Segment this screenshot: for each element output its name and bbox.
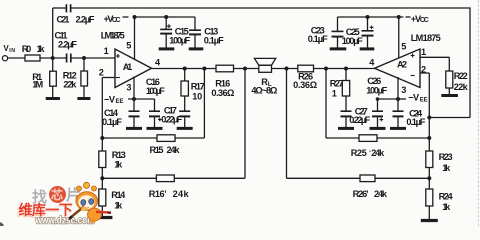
ground R14 [95, 216, 113, 219]
resistor R26' [360, 175, 375, 182]
node A2 -Vee [396, 97, 400, 101]
svg-text:24k: 24k [173, 189, 190, 199]
svg-text:5: 5 [126, 40, 131, 50]
ground C14 [126, 127, 142, 130]
wire A2 pin3 [397, 77, 399, 111]
wire right edge to A2 inverting node [429, 117, 470, 119]
ground C17 [177, 127, 193, 130]
svg-text:R17: R17 [191, 81, 205, 91]
svg-text:1: 1 [332, 88, 337, 98]
svg-text:R24: R24 [439, 192, 454, 202]
corner mark bottom-left [0, 223, 4, 227]
node R23/R24/R26' junction [427, 176, 431, 180]
resistor R16 [216, 65, 234, 72]
wire R0 to C11 [40, 57, 66, 59]
mascot eye left [81, 200, 86, 206]
svg-text:−V: −V [104, 94, 116, 104]
svg-text:R26’: R26’ [353, 189, 369, 199]
wire speaker right down [286, 69, 288, 179]
wire speaker to R26 [272, 68, 298, 70]
resistor R1 [50, 58, 57, 97]
svg-text:R27: R27 [330, 79, 344, 89]
node A2 pin5 rail [397, 15, 401, 19]
capacitor C14 [129, 111, 140, 127]
ground C25 [360, 47, 375, 50]
resistor R14 [99, 189, 106, 216]
ground C26 [370, 127, 386, 130]
node R15 feedback tap [202, 67, 206, 71]
svg-text:100µF: 100µF [366, 86, 387, 96]
wire R25 vertical [325, 69, 327, 139]
mascot crown balls [77, 186, 82, 191]
power +Vcc left rail [133, 16, 195, 18]
power +Vcc left dash [123, 16, 129, 18]
svg-text:−V: −V [408, 93, 420, 103]
node R17 tap [183, 67, 187, 71]
capacitor C15 [160, 17, 172, 48]
svg-text:1k: 1k [114, 201, 123, 211]
resistor R24 [426, 189, 433, 219]
svg-text:R0: R0 [22, 44, 32, 54]
op-amp A2 LM1875 [375, 49, 421, 88]
svg-text:0.1µF: 0.1µF [204, 35, 224, 45]
svg-text:R16’: R16’ [149, 189, 167, 199]
svg-text:www.dzsc.com: www.dzsc.com [35, 215, 95, 227]
node pin2/R15 junction [100, 136, 104, 140]
resistor R27 [342, 69, 349, 112]
wire R26' rail [287, 177, 430, 179]
svg-text:R23: R23 [439, 152, 453, 162]
capacitor C27 [341, 111, 352, 127]
svg-text:100µF: 100µF [342, 36, 363, 46]
power +Vcc right dash [406, 16, 411, 18]
resistor R22 [446, 71, 453, 94]
svg-text:R13: R13 [112, 150, 126, 160]
resistor R12 [81, 58, 88, 97]
mascot cartoon [69, 182, 111, 223]
op-amp A1 LM1875 [115, 49, 152, 88]
A1 minus mark [116, 77, 120, 79]
svg-text:4: 4 [369, 58, 375, 68]
node C25 rail [366, 15, 370, 19]
wire R15 rail [102, 137, 204, 139]
node speaker right [285, 67, 289, 71]
svg-text:+VCC: +VCC [411, 14, 429, 24]
mascot face [79, 195, 95, 209]
svg-text:10: 10 [192, 91, 202, 101]
wire A1 pin2 stub [102, 77, 115, 79]
mascot brown pen [71, 207, 85, 218]
ground R1 [46, 97, 60, 100]
svg-text:3: 3 [126, 82, 131, 92]
svg-text:R15: R15 [150, 145, 164, 155]
node C26 tap [376, 97, 380, 101]
resistor R25 [359, 135, 377, 142]
ground C27 [338, 127, 354, 130]
ground C13 [189, 47, 204, 50]
mascot foot [90, 219, 96, 223]
svg-text:IN: IN [9, 48, 15, 54]
svg-text:R14: R14 [111, 190, 126, 200]
svg-text:2: 2 [99, 67, 104, 77]
wire R25 rail [326, 137, 429, 139]
wire R15 vertical [203, 69, 205, 139]
capacitor C23 [332, 17, 344, 48]
capacitor C13 [189, 17, 201, 48]
ground R22 [441, 94, 458, 97]
capacitor C11 [67, 54, 71, 63]
capacitor C16 [149, 111, 162, 127]
A1 plus mark [116, 54, 120, 58]
svg-text:LM1875: LM1875 [101, 30, 125, 40]
svg-text:22k: 22k [454, 82, 469, 92]
wire A1 pin5 [134, 17, 136, 60]
svg-text:0.22µF: 0.22µF [161, 115, 182, 125]
svg-text:2: 2 [421, 64, 426, 74]
svg-text:R25: R25 [351, 148, 367, 158]
svg-text:100µF: 100µF [146, 86, 165, 96]
resistor R15 [157, 135, 175, 142]
svg-text:0.36Ω: 0.36Ω [293, 80, 317, 90]
svg-text:1k: 1k [442, 163, 451, 173]
wire A2 pin1 to R22 [420, 57, 449, 71]
mascot head [76, 192, 98, 210]
svg-text:1M: 1M [32, 79, 43, 89]
svg-text:C21: C21 [57, 14, 70, 24]
node R13/R14/R16' junction [100, 176, 104, 180]
node A1 -Vee [132, 97, 136, 101]
resistor R17 [181, 69, 188, 112]
wire A2 pin5 [398, 17, 400, 60]
capacitor C26 [372, 111, 383, 127]
node input (junction R0/C11/R1/C21) [51, 56, 55, 60]
mascot hand [81, 207, 86, 212]
wire -Vee A1 to C16 [128, 99, 155, 111]
resistor R13 [99, 138, 106, 189]
wire R16' rail [102, 177, 245, 179]
svg-text:LM1875: LM1875 [411, 33, 441, 43]
resistor R0 [25, 55, 40, 61]
watermark seal circle [49, 186, 66, 203]
svg-text:100µF: 100µF [169, 36, 190, 46]
mascot mouth [85, 206, 89, 209]
wire A2 pin2 stub [420, 73, 429, 138]
node R25/pin2 junction [427, 136, 431, 140]
ground C16 [147, 127, 163, 130]
node R25 feedback tap [324, 67, 328, 71]
svg-text:A2: A2 [397, 59, 407, 69]
svg-text:24k: 24k [371, 148, 385, 158]
node R27 tap [344, 67, 348, 71]
capacitor C25 [362, 17, 374, 48]
input terminal Vin [2, 56, 7, 61]
svg-text:3: 3 [401, 85, 406, 95]
capacitor C24 [393, 111, 404, 127]
svg-text:2.2µF: 2.2µF [76, 14, 95, 24]
svg-text:1k: 1k [114, 160, 123, 170]
mascot body [88, 208, 102, 221]
node C11 right (junction C11/R12/pin1) [82, 56, 86, 60]
svg-text:1: 1 [104, 46, 109, 56]
svg-text:0.1µF: 0.1µF [406, 117, 425, 127]
node pin5 rail [133, 15, 137, 19]
svg-text:4: 4 [155, 58, 161, 68]
capacitor C21 [66, 4, 70, 12]
wire C21 top run [53, 7, 66, 9]
wire A1 output [152, 68, 217, 70]
wire A1 pin2 down [101, 78, 103, 139]
svg-text:1k: 1k [442, 202, 451, 212]
svg-text:+VCC: +VCC [104, 14, 121, 24]
wire -Vee A2 to C26 [378, 99, 399, 111]
wire R16 to speaker [234, 68, 259, 70]
svg-text:24k: 24k [374, 189, 388, 199]
svg-text:5: 5 [401, 41, 406, 51]
wire C21 to right edge [71, 8, 470, 118]
ground R12 [77, 97, 90, 100]
ground C15 [159, 47, 175, 50]
wire C21 riser [52, 8, 54, 58]
svg-text:4Ω~8Ω: 4Ω~8Ω [251, 86, 277, 96]
node speaker left [243, 67, 247, 71]
resistor R23 [426, 138, 433, 189]
svg-text:A1: A1 [123, 62, 133, 72]
node bootstrap junction [427, 116, 431, 120]
svg-text:EE: EE [116, 99, 124, 105]
wire -Vee A2 stub right [398, 98, 406, 100]
resistor R16' [156, 175, 174, 182]
svg-text:22k: 22k [63, 79, 77, 89]
svg-text:1: 1 [421, 47, 426, 57]
speaker RL [254, 58, 275, 72]
svg-text:2.2µF: 2.2µF [58, 39, 77, 49]
ground R24 [421, 219, 438, 222]
watermark dzsc.com logo [17, 186, 95, 227]
capacitor C17 [179, 111, 190, 127]
mascot eye right [89, 199, 94, 205]
node C15 rail [164, 15, 168, 19]
ground C23 [330, 47, 347, 50]
svg-text:24k: 24k [167, 145, 181, 155]
power +Vcc right rail [338, 16, 404, 18]
resistor R26 [298, 65, 314, 72]
border right edge [477, 0, 479, 226]
wire A1 pin3 [133, 77, 135, 112]
wire C11 to A1 pin1 [71, 57, 115, 59]
wire R26 to A2 output [314, 68, 375, 70]
ground C24 [390, 127, 406, 130]
A2 plus mark [411, 54, 415, 58]
svg-text:0.36Ω: 0.36Ω [211, 88, 234, 98]
svg-text:0.1µF: 0.1µF [308, 34, 328, 44]
svg-text:EE: EE [420, 98, 428, 104]
wire input to R0 [8, 57, 25, 59]
mascot red pencil [96, 211, 108, 214]
svg-text:0.1µF: 0.1µF [102, 117, 122, 127]
A2 minus mark [411, 75, 415, 77]
svg-text:R16: R16 [215, 78, 230, 88]
svg-text:芯: 芯 [51, 187, 63, 202]
wire speaker left down [244, 69, 246, 179]
svg-text:R22: R22 [454, 71, 468, 81]
svg-text:1k: 1k [37, 44, 46, 54]
svg-text:0.22µF: 0.22µF [349, 115, 370, 125]
